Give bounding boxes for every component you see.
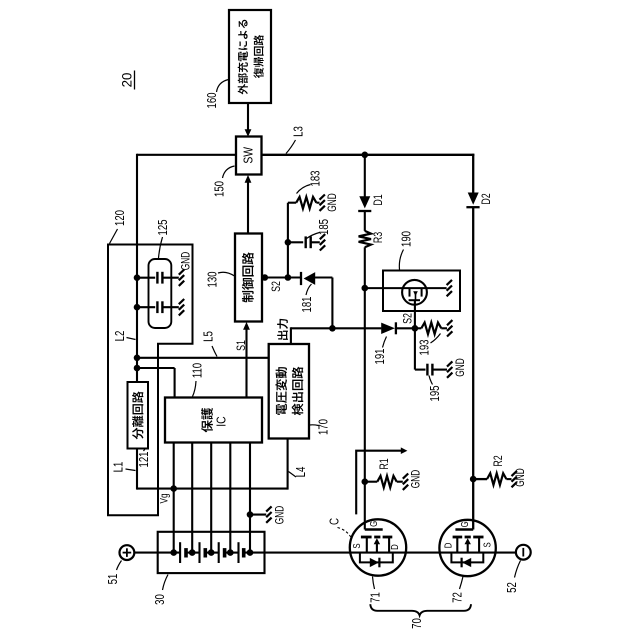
MOSFET 71 body diode loop: [360, 553, 393, 563]
wire L1 (below isolation circuit): [136, 449, 138, 490]
svg-text:R3: R3: [372, 232, 386, 243]
brace grouping FETs 71/72: [370, 604, 471, 615]
svg-text:51: 51: [107, 574, 121, 585]
block 121 isolation circuit (分離回路): [128, 382, 149, 449]
block 130 control circuit (制御回路): [235, 234, 262, 322]
svg-text:160: 160: [206, 92, 220, 108]
svg-text:GND: GND: [274, 506, 287, 524]
resistor R1 with leads: [365, 481, 378, 483]
svg-text:GND: GND: [515, 468, 528, 486]
wire 出力 (output) from detection circuit: [290, 327, 292, 344]
node on S2 at box edge: [262, 274, 269, 281]
svg-text:GND: GND: [455, 358, 468, 376]
control signal C wire with arrow: [356, 451, 401, 515]
wire S1 from IC to control circuit (arrow up): [245, 329, 247, 398]
svg-text:GND: GND: [410, 470, 423, 488]
svg-text:190: 190: [400, 231, 414, 247]
MOSFET 72 channel segments: [453, 536, 463, 539]
svg-text:195: 195: [429, 385, 443, 401]
wire node down to capacitor 195: [414, 328, 416, 369]
label 出力 (output): [277, 331, 288, 340]
battery tap node 5: [247, 549, 254, 556]
node Vg on protection IC pin 1: [170, 485, 177, 492]
diode 191 (pointing right): [381, 323, 395, 334]
wire L3 (top rail) left segment: [137, 154, 236, 156]
svg-text:GND: GND: [180, 252, 193, 270]
wire L2 (from L3 corner down to isolation circuit): [136, 154, 138, 382]
svg-text:181: 181: [301, 296, 315, 312]
protection IC sense pin 2 wire: [191, 443, 193, 553]
svg-text:D: D: [389, 544, 400, 550]
wire L4 up into detection circuit: [287, 439, 289, 490]
battery cell 2 plates: [198, 542, 200, 563]
svg-text:S: S: [482, 542, 493, 547]
node on L2 at capacitor C125b: [134, 304, 141, 311]
ground symbol for R183: [320, 195, 325, 200]
wire/arrow from 130 into SW: [247, 182, 249, 234]
battery cell 4 plates: [237, 542, 239, 563]
capacitor 185 with leads: [288, 241, 303, 243]
svg-text:20: 20: [119, 72, 134, 87]
block 160 recovery-by-external-charge circuit (外部充電による復帰回路): [229, 10, 271, 103]
resistor 193 with leads: [415, 327, 421, 329]
node at pilot-lamp branch: [362, 285, 369, 292]
battery main wire segments: [135, 552, 180, 554]
wire S2 from control circuit: [262, 276, 301, 278]
MOSFET 72 drain contact: [456, 537, 458, 553]
MOSFET 72 body (circle): [439, 520, 495, 576]
svg-text:SW: SW: [241, 146, 255, 164]
battery tap node 1: [170, 549, 177, 556]
node on L2 at wire to protection IC: [134, 365, 141, 372]
svg-text:D2: D2: [480, 193, 494, 204]
svg-text:130: 130: [206, 271, 220, 287]
protection IC sense pin 5 wire: [249, 443, 251, 553]
battery tap node 3: [208, 549, 215, 556]
node S2/R193/C195 junction: [412, 325, 419, 332]
MOSFET 71 gate bar: [365, 528, 383, 530]
wire D2 bus down to FET 72 gate: [472, 207, 474, 529]
MOSFET 72 body diode loop: [451, 553, 483, 563]
MOSFET 72 body diode: [462, 558, 471, 567]
MOSFET 71 body diode: [370, 558, 379, 567]
node at capacitor 185 branch: [285, 239, 292, 246]
node on L2 at capacitor C125a: [134, 274, 141, 281]
svg-text:S: S: [351, 543, 362, 548]
svg-text:R1: R1: [378, 458, 392, 469]
battery tap node 4: [227, 549, 234, 556]
wire/arrow from 160 into SW: [247, 103, 249, 130]
svg-text:D: D: [443, 542, 454, 548]
negative terminal 52: [516, 545, 531, 560]
ground symbol for R2: [512, 471, 517, 476]
MOSFET 72 substrate arrow (up): [467, 543, 469, 553]
svg-text:S1: S1: [235, 340, 249, 351]
node GND branch on pin5: [247, 511, 254, 518]
wire Vg (from L1 corner to L4): [137, 488, 288, 490]
svg-text:Vg: Vg: [158, 494, 171, 504]
ground symbol in module 190: [447, 280, 452, 285]
svg-text:121: 121: [138, 451, 152, 467]
diode D1 (pointing down): [359, 196, 370, 208]
block 170 voltage fluctuation detection circuit (電圧変動検出回路): [269, 344, 309, 439]
svg-text:150: 150: [213, 181, 227, 197]
svg-text:L4: L4: [295, 466, 309, 477]
battery cell 3 plates: [218, 542, 220, 563]
MOSFET 72 gate bar: [455, 528, 473, 530]
wire from L2 into protection IC top: [137, 367, 175, 369]
node on S2 at RC branch: [285, 274, 292, 281]
battery pack box 30: [158, 532, 265, 573]
capacitor 195: [426, 364, 428, 376]
protection IC sense pin 3 wire: [210, 443, 212, 553]
MOSFET 71 source contact: [366, 537, 368, 553]
module 120 boundary (L-shaped box): [108, 245, 193, 516]
wire from S2 node up to R183: [287, 203, 289, 279]
svg-text:120: 120: [114, 210, 128, 226]
MOSFET 72 source contact: [478, 537, 480, 553]
battery cell 1 plates: [179, 542, 181, 563]
diode D2 (pointing down): [468, 193, 479, 205]
node on L2 at wire L5: [134, 355, 141, 362]
svg-text:30: 30: [154, 594, 168, 605]
MOSFET 71 substrate arrow (up): [376, 543, 378, 553]
diode 181 (cathode bar left, pointing left): [300, 272, 302, 285]
positive terminal 51: [120, 545, 135, 560]
wire S2 from module 190 down to node: [414, 300, 416, 328]
switch SW (150): [236, 137, 262, 175]
svg-text:185: 185: [318, 219, 332, 235]
ground symbol for R1: [403, 474, 408, 479]
node at resistor R1 branch: [362, 478, 369, 485]
wire from bus node into module 190: [365, 287, 447, 289]
battery tap node 2: [189, 549, 196, 556]
svg-text:IC: IC: [214, 416, 228, 427]
MOSFET 71 body (circle): [350, 519, 406, 575]
wire L5 to detection circuit: [137, 357, 269, 359]
transistor symbol in module 190 (circle): [402, 280, 427, 305]
svg-text:L2: L2: [114, 331, 128, 342]
wire L3 right segment: [262, 154, 475, 156]
capacitor module 125 (rounded box): [149, 259, 172, 328]
svg-text:52: 52: [506, 582, 520, 593]
resistor R3 (vertical): [359, 231, 371, 247]
wire from L3 node down to D1: [364, 155, 366, 197]
junction node on L3 at D1 branch: [362, 152, 369, 159]
node where diode 181 branch joins output line: [329, 325, 336, 332]
wire R3 down to FET 71 gate: [364, 247, 366, 529]
svg-text:170: 170: [317, 419, 331, 435]
svg-text:L3: L3: [292, 126, 306, 137]
ground lead from pin5: [250, 514, 266, 516]
wire diode 191 to node S2: [396, 327, 415, 329]
svg-text:GND: GND: [327, 193, 340, 211]
svg-text:S2: S2: [401, 313, 415, 324]
svg-text:125: 125: [157, 219, 171, 235]
svg-text:70: 70: [411, 618, 425, 629]
protection IC sense pin 4 wire: [229, 443, 231, 553]
svg-text:110: 110: [191, 363, 205, 378]
transistor 190 internals: [409, 288, 411, 297]
protection IC sense pin 1 wire: [173, 443, 175, 553]
ground symbol (battery negative): [266, 506, 271, 511]
svg-text:191: 191: [374, 348, 388, 364]
svg-text:G: G: [459, 521, 470, 527]
capacitor C125b with lead: [137, 306, 155, 308]
svg-text:193: 193: [418, 339, 432, 355]
svg-text:R2: R2: [492, 455, 506, 466]
module 190 box: [383, 271, 460, 312]
resistor 183 with lead: [288, 202, 296, 204]
wire from diode 181 to output line: [315, 276, 333, 278]
node at resistor R2 branch: [470, 476, 477, 483]
svg-text:71: 71: [369, 592, 383, 603]
svg-text:S2: S2: [270, 281, 284, 292]
svg-text:D1: D1: [372, 194, 386, 205]
svg-text:C: C: [328, 518, 341, 525]
svg-text:L5: L5: [202, 331, 216, 342]
ground symbol for C195: [447, 361, 452, 366]
svg-text:72: 72: [451, 592, 465, 603]
svg-text:L1: L1: [112, 462, 126, 473]
MOSFET 71 drain contact: [388, 537, 390, 553]
block 110 protection IC (保護IC): [165, 398, 262, 443]
svg-text:183: 183: [309, 170, 323, 186]
ground symbol for C125b: [179, 299, 184, 304]
ground symbol for C185: [320, 234, 325, 239]
capacitor C125a with lead: [137, 277, 155, 279]
ground symbol for C125a: [179, 270, 184, 275]
resistor R2 with leads: [473, 478, 487, 480]
wire from L3 corner down to D2: [472, 154, 474, 193]
wire D1 to R3: [364, 211, 366, 231]
svg-text:G: G: [368, 521, 379, 527]
MOSFET 71 channel segments: [361, 536, 372, 539]
ground symbol for R193: [447, 320, 452, 325]
